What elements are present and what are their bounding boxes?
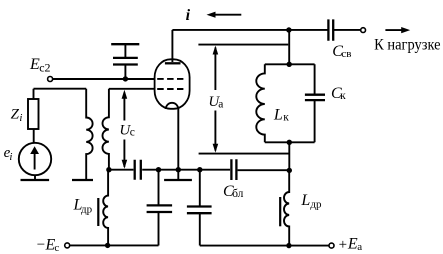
svg-text:др: др [81,203,93,215]
svg-text:a: a [218,99,223,111]
svg-text:−: − [37,237,45,253]
svg-text:+: + [339,237,347,253]
svg-text:i: i [19,112,22,124]
svg-text:i: i [9,151,12,163]
svg-text:К нагрузке: К нагрузке [374,37,441,54]
svg-text:к: к [283,112,289,124]
svg-text:к: к [340,90,346,102]
svg-text:i: i [186,7,191,24]
svg-text:c: c [130,126,135,138]
svg-text:др: др [310,199,322,211]
svg-text:с: с [54,242,59,254]
svg-text:L: L [300,192,310,209]
svg-text:Z: Z [11,106,20,122]
svg-text:c2: c2 [39,60,50,74]
svg-text:а: а [357,241,362,253]
svg-text:бл: бл [232,188,244,200]
svg-text:L: L [273,106,283,123]
svg-text:св: св [341,48,351,60]
